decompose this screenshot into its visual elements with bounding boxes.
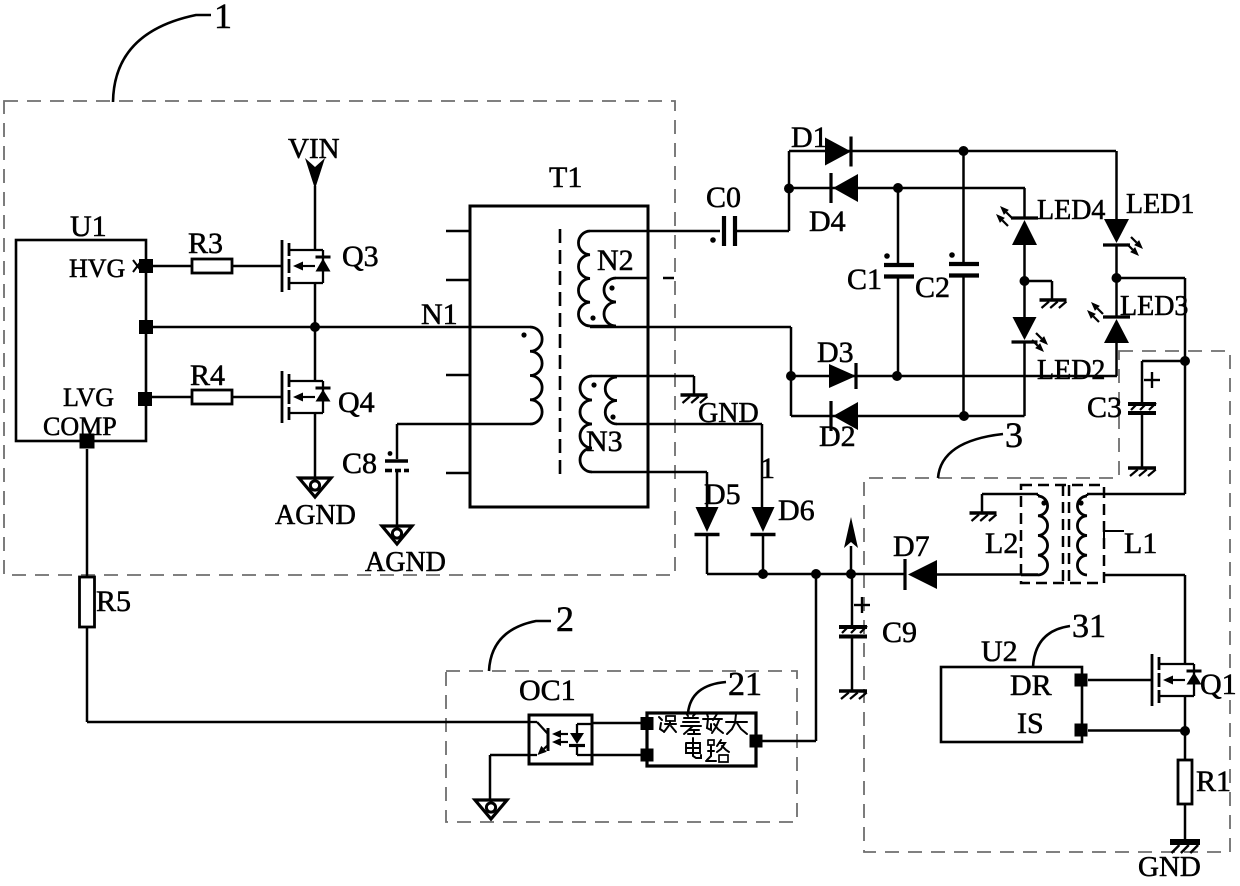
svg-text:LED3: LED3 xyxy=(1120,291,1188,322)
svg-text:1: 1 xyxy=(760,452,775,485)
junction dot LED4/LED2 xyxy=(1020,276,1030,286)
ground between LED4 and LED2 xyxy=(1040,300,1067,308)
wire OC1 to error amp top xyxy=(592,722,641,725)
ground at L2 top xyxy=(970,513,997,521)
T1 core dashed line xyxy=(559,229,562,477)
OC1 led bracket xyxy=(577,724,592,755)
junction dot Q1 source xyxy=(1180,726,1190,736)
U1 pin label HVG xyxy=(69,254,125,283)
wire L1 bottom to Q1 xyxy=(1104,575,1185,664)
U1 pin LVG xyxy=(138,392,152,406)
wire VIN to Q3 drain xyxy=(314,186,317,250)
svg-text:Q3: Q3 xyxy=(342,240,379,273)
wire DR to Q1 gate xyxy=(1088,679,1152,682)
LED LED1 xyxy=(1103,189,1194,256)
svg-text:R5: R5 xyxy=(96,585,131,618)
ground under OC1 xyxy=(475,800,507,819)
svg-text:C2: C2 xyxy=(915,271,950,304)
T1 left stub a xyxy=(446,230,470,233)
wire N2 top lead to C0 xyxy=(590,230,720,233)
svg-text:LED4: LED4 xyxy=(1037,195,1105,226)
U1 pin label COMP xyxy=(43,412,117,441)
wire Q3 source to N1 xyxy=(314,283,317,327)
capacitor C8 xyxy=(342,447,409,480)
wire U1 to node N1 to T1 primary xyxy=(153,326,530,329)
error amp pin right xyxy=(750,735,763,748)
node N1 junction xyxy=(310,298,458,332)
error amplifier text xyxy=(659,713,747,762)
junction dot D3 row left xyxy=(786,371,796,381)
capacitor C2 xyxy=(915,151,979,416)
wire HVG to R3 xyxy=(153,265,192,268)
winding N2 label xyxy=(597,244,634,277)
wire D2 row up to D3 row xyxy=(1023,376,1026,416)
svg-text:2: 2 xyxy=(556,599,574,639)
svg-text:D2: D2 xyxy=(819,420,856,453)
svg-text:LVG: LVG xyxy=(63,383,114,412)
IC U2 box xyxy=(941,635,1082,742)
wire LED3 to low bus xyxy=(1115,342,1118,376)
junction dot C1 top xyxy=(893,183,903,193)
T1 left stub b xyxy=(446,279,470,282)
U2 pin IS xyxy=(1075,724,1088,737)
svg-text:Q4: Q4 xyxy=(338,386,375,419)
wire C3 to ground xyxy=(1141,414,1144,467)
svg-text:N1: N1 xyxy=(421,298,458,331)
output arrow xyxy=(844,517,858,574)
diode D4 row wire xyxy=(789,187,1025,190)
wire N2 bottom lead xyxy=(590,326,791,327)
junction dot C2 bottom xyxy=(959,411,969,421)
svg-text:VIN: VIN xyxy=(288,133,340,165)
wire OC1 to error amp bottom xyxy=(592,754,641,757)
svg-text:Q1: Q1 xyxy=(1200,668,1237,701)
ground GND tap xyxy=(681,395,759,429)
wire N3 mid lead to D6 xyxy=(617,424,762,507)
svg-text:DR: DR xyxy=(1010,669,1052,702)
error amp pin left bottom xyxy=(641,749,654,762)
wire L1 top lead xyxy=(1087,494,1185,496)
svg-text:D1: D1 xyxy=(791,121,828,154)
junction dot D4 row xyxy=(784,184,794,194)
wire C3 tap xyxy=(1142,361,1185,402)
resistor R3 xyxy=(188,227,232,273)
LED LED2 xyxy=(1012,317,1106,386)
junction dot C3 tap xyxy=(1180,356,1190,366)
wire N3 top lead to GND tap xyxy=(592,376,694,394)
U1 pin label LVG xyxy=(63,383,114,412)
diode D5 xyxy=(695,478,741,535)
diode D3 xyxy=(817,336,856,389)
wire COMP down xyxy=(86,449,89,577)
diode D4 xyxy=(809,173,858,238)
svg-text:N3: N3 xyxy=(586,425,623,458)
U2 pin label IS xyxy=(1017,707,1044,740)
svg-text:R1: R1 xyxy=(1196,765,1231,798)
ground under C3 xyxy=(1128,468,1156,476)
wire IS row xyxy=(1088,729,1185,732)
T1 left stub d xyxy=(446,472,470,475)
ground GND main xyxy=(1138,839,1201,883)
callout label 2 xyxy=(489,599,574,671)
capacitor C9 xyxy=(839,616,917,649)
dashed box: primary-side circuit block 1 xyxy=(4,101,675,575)
svg-text:AGND: AGND xyxy=(275,500,356,531)
transformer L core dashed box xyxy=(1021,485,1104,583)
dashed box: feedback circuit block 2 xyxy=(446,671,797,822)
wire D7 to L2 xyxy=(937,573,1038,576)
wire N3 bottom lead to D5 xyxy=(592,472,707,507)
svg-text:L2: L2 xyxy=(985,527,1018,560)
IC U1 box xyxy=(16,210,146,441)
callout label 3 xyxy=(938,415,1023,478)
junction dot C1 bottom xyxy=(892,371,902,381)
wire to R1 xyxy=(1184,731,1187,760)
wire LED1 to junction xyxy=(1115,246,1118,318)
wire error amp output xyxy=(762,574,816,741)
svg-text:HVG: HVG xyxy=(69,254,125,283)
diode D2 xyxy=(819,401,858,453)
transformer T1 box xyxy=(470,161,648,507)
wire Q4 source down xyxy=(314,413,317,478)
svg-text:LED1: LED1 xyxy=(1126,189,1194,220)
diode D6 xyxy=(751,494,815,535)
wire C8 to AGND xyxy=(396,472,399,526)
junction dot feedback tap xyxy=(811,569,821,579)
diode D1 row wire xyxy=(789,150,1116,153)
wire T1 N2 to rectifier low side xyxy=(790,327,793,416)
winding L2 xyxy=(985,496,1048,575)
callout label 1 xyxy=(113,0,232,102)
net label 1 on D6 wire xyxy=(760,452,775,485)
OC1 light arrows xyxy=(552,730,568,746)
capacitor C3 plus sign xyxy=(1144,372,1160,388)
svg-text:C0: C0 xyxy=(706,181,741,214)
svg-text:OC1: OC1 xyxy=(519,674,576,707)
wire output bus xyxy=(707,573,905,576)
callout label 21 xyxy=(688,666,762,713)
wire C0 to rectifier corner xyxy=(735,151,789,231)
transistor Q1 xyxy=(1152,654,1237,706)
wire L2 top to ground xyxy=(982,494,1038,512)
capacitor C9 plus sign xyxy=(854,597,870,613)
T1 left stub c xyxy=(446,374,470,377)
diode D3 row wire xyxy=(791,375,1117,378)
svg-text:IS: IS xyxy=(1017,707,1044,740)
wire D1 row to LED1 xyxy=(1115,151,1118,219)
OC1 led xyxy=(569,724,585,755)
dashed box: output/regulator block 3 (L-shaped) xyxy=(864,351,1230,852)
svg-text:1: 1 xyxy=(214,0,232,36)
winding N3 label xyxy=(586,425,623,458)
svg-text:U2: U2 xyxy=(981,635,1018,668)
wire bus to C9 xyxy=(851,574,854,626)
wire OC1 emitter to ground xyxy=(490,755,529,800)
resistor R5 xyxy=(80,577,132,627)
LED LED3 xyxy=(1087,291,1188,343)
callout label 31 xyxy=(1033,608,1106,667)
wire R3 to Q3 gate xyxy=(232,265,282,268)
U1 pin COMP xyxy=(80,434,95,449)
LED LED4 xyxy=(996,195,1105,245)
U1 pin HVG xyxy=(133,259,153,273)
svg-text:LED2: LED2 xyxy=(1037,355,1105,386)
error amp pin left top xyxy=(641,717,654,730)
wire R1 to GND xyxy=(1184,804,1187,839)
wire LED junction to right rail xyxy=(1117,278,1186,494)
wire junction to mid ground xyxy=(1025,281,1053,299)
capacitor C3 xyxy=(1087,391,1156,424)
U1 pin mid xyxy=(139,320,153,334)
T1 primary winding xyxy=(521,327,542,424)
wire D4 row to LED4 xyxy=(1023,188,1026,218)
optocoupler OC1 box xyxy=(519,674,592,764)
resistor R1 xyxy=(1178,760,1231,804)
transistor Q4 xyxy=(282,371,375,423)
svg-text:AGND: AGND xyxy=(365,547,446,578)
U2 pin DR xyxy=(1075,674,1088,687)
svg-text:31: 31 xyxy=(1072,608,1106,645)
wire Q1 source to junction xyxy=(1184,696,1187,731)
wire R4 to Q4 gate xyxy=(232,396,282,399)
VIN label xyxy=(288,133,340,165)
svg-text:N2: N2 xyxy=(597,244,634,277)
wire R5 to OC1 xyxy=(87,627,529,722)
transistor Q3 xyxy=(282,240,379,292)
wire D5 to bus xyxy=(706,535,709,575)
ground under C9 xyxy=(839,691,867,699)
junction dot D6 bus xyxy=(758,569,768,579)
capacitor C1 xyxy=(847,188,914,376)
error amplifier box xyxy=(647,713,756,766)
svg-text:D3: D3 xyxy=(817,336,854,369)
wire C9 to ground xyxy=(851,638,854,690)
L1 label leader xyxy=(1104,531,1124,542)
ground AGND under Q4 xyxy=(275,478,356,531)
wire N2 mid stub xyxy=(616,277,674,280)
svg-text:3: 3 xyxy=(1005,415,1023,455)
svg-text:R4: R4 xyxy=(190,359,225,392)
wire LVG to R4 xyxy=(152,396,192,399)
wire D6 to bus xyxy=(762,535,765,575)
diode D7 xyxy=(893,530,937,590)
winding N3 main coil xyxy=(580,376,597,472)
svg-text:T1: T1 xyxy=(549,161,582,194)
junction dot LED1/LED3 xyxy=(1112,273,1122,283)
svg-text:C3: C3 xyxy=(1087,391,1122,424)
svg-text:L1: L1 xyxy=(1124,527,1157,560)
svg-text:D5: D5 xyxy=(704,478,741,511)
svg-text:D7: D7 xyxy=(893,530,930,563)
OC1 phototransistor xyxy=(529,722,548,755)
svg-text:R3: R3 xyxy=(188,227,223,260)
svg-text:C9: C9 xyxy=(882,616,917,649)
svg-text:D4: D4 xyxy=(809,205,846,238)
wire LED4 to junction xyxy=(1023,245,1026,317)
diode D2 row wire xyxy=(791,415,1025,418)
winding N2 aux coil xyxy=(604,278,616,326)
junction dot C2 top xyxy=(959,146,969,156)
resistor R4 xyxy=(190,359,232,404)
wire LED2 to low bus xyxy=(1023,342,1026,376)
winding N2 main coil xyxy=(578,231,595,326)
svg-text:U1: U1 xyxy=(70,210,107,243)
wire N1 to Q4 drain xyxy=(314,327,317,381)
winding N3 aux coil xyxy=(605,377,617,424)
svg-text:C8: C8 xyxy=(342,447,377,480)
wire T1 primary bottom to C8 xyxy=(397,424,530,459)
svg-text:GND: GND xyxy=(1138,851,1201,883)
diode D1 xyxy=(791,121,851,167)
VIN arrow xyxy=(305,158,325,189)
svg-text:D6: D6 xyxy=(778,494,815,527)
svg-text:21: 21 xyxy=(728,666,762,703)
ground AGND under C8 xyxy=(365,526,446,578)
U2 pin label DR xyxy=(1010,669,1052,702)
capacitor C0 xyxy=(706,181,741,246)
winding L1 xyxy=(1077,496,1157,575)
junction dot C9 tap xyxy=(846,569,856,579)
svg-text:C1: C1 xyxy=(847,263,882,296)
wire L2 bottom lead xyxy=(1021,574,1038,577)
